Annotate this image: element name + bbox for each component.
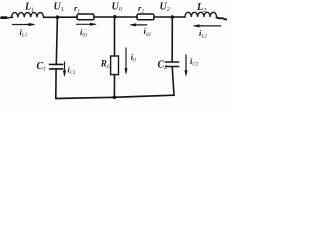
svg-text:L1: L1 bbox=[24, 2, 34, 14]
wire node U0 to resistor r2 bbox=[115, 16, 138, 18]
current arrow iL2 (points left) bbox=[195, 25, 222, 27]
svg-text:U2: U2 bbox=[160, 1, 170, 13]
svg-text:iC1: iC1 bbox=[68, 66, 77, 77]
wire node U1 to resistor r1 bbox=[57, 16, 77, 18]
arrowhead i0 bbox=[124, 68, 127, 74]
svg-text:i0: i0 bbox=[131, 53, 136, 64]
current arrow i0 (down) bbox=[125, 48, 127, 73]
wire r2 to node U2 bbox=[154, 16, 172, 18]
capacitor C1 bottom plate bbox=[50, 68, 63, 70]
current arrow i02 (points left) bbox=[131, 24, 147, 26]
inductor L2 bbox=[185, 12, 217, 17]
arrowhead iL1 bbox=[29, 23, 36, 26]
capacitor C1 top plate bbox=[50, 63, 63, 65]
capacitor C2 top plate bbox=[166, 61, 179, 63]
arrowhead iL2 bbox=[193, 24, 200, 27]
node U0 junction dot bbox=[113, 15, 117, 19]
arrowhead i02 bbox=[129, 23, 136, 26]
arrowhead iC2 bbox=[184, 70, 187, 76]
wire RL down to bottom node bbox=[113, 75, 115, 98]
svg-text:iC2: iC2 bbox=[190, 57, 199, 68]
wire C2 down to bottom rail bbox=[172, 67, 174, 96]
svg-text:r2: r2 bbox=[138, 3, 144, 14]
resistor RL box bbox=[111, 56, 119, 75]
svg-text:L2: L2 bbox=[196, 2, 206, 14]
current arrow iC1 (down) bbox=[64, 62, 66, 76]
bottom rail wire right segment bbox=[114, 95, 174, 97]
svg-text:iL2: iL2 bbox=[199, 29, 207, 40]
current arrow iL1 bbox=[12, 24, 34, 26]
svg-text:U0: U0 bbox=[112, 1, 123, 13]
resistor r1 bbox=[77, 14, 94, 20]
wire L1 to node U1 bbox=[44, 16, 58, 18]
resistor r2 bbox=[137, 14, 154, 20]
svg-text:C1: C1 bbox=[37, 61, 47, 73]
arrowhead i01 bbox=[90, 23, 97, 26]
wire node U2 down to C2 bbox=[171, 17, 173, 62]
capacitor C2 bottom plate bbox=[166, 66, 179, 68]
wire node U0 down to RL bbox=[114, 17, 116, 56]
svg-text:i02: i02 bbox=[144, 27, 152, 38]
svg-text:RL: RL bbox=[100, 58, 110, 70]
right output terminal squiggle bbox=[217, 17, 228, 19]
bottom rail wire left segment bbox=[56, 97, 115, 98]
svg-text:C2: C2 bbox=[158, 59, 168, 71]
left input terminal squiggle bbox=[2, 16, 7, 19]
svg-text:r1: r1 bbox=[74, 3, 80, 14]
wire left terminal to L1 bbox=[6, 16, 13, 19]
wire node U2 to L2 bbox=[172, 16, 185, 18]
wire node U1 down to C1 bbox=[56, 17, 57, 64]
current arrow iC2 (down) bbox=[185, 55, 187, 75]
arrowhead iC1 bbox=[63, 71, 66, 78]
svg-text:iL1: iL1 bbox=[20, 28, 28, 39]
bottom center junction dot bbox=[113, 96, 117, 100]
node U2 junction dot bbox=[171, 15, 175, 19]
wire r1 to node U0 bbox=[94, 16, 115, 18]
wire C1 down to bottom rail bbox=[55, 69, 57, 99]
svg-text:i01: i01 bbox=[80, 28, 88, 39]
current arrow i01 bbox=[76, 23, 96, 25]
svg-text:U1: U1 bbox=[54, 1, 64, 13]
inductor L1 bbox=[12, 13, 44, 18]
node U1 junction dot bbox=[56, 15, 60, 19]
